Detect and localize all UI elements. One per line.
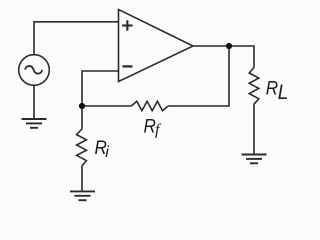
ground (RL) [242,155,267,164]
svg-text:R: R [266,76,278,98]
wire node A to Rf [82,105,131,107]
op-amp + input marker [122,20,133,30]
wire op-amp - input to node A [82,71,119,106]
svg-text:f: f [155,121,162,138]
ac source V1 [19,55,50,86]
op-amp - input marker [123,65,133,67]
svg-text:L: L [278,81,289,104]
wire op-amp output to RL branch [193,46,254,68]
resistor Ri [77,129,87,167]
op-amp U1 [119,10,194,82]
wire source top to op-amp + input [34,22,119,55]
node A: inverting input junction [79,103,85,109]
wire Ri to ground [81,167,83,191]
wire node A to Ri [81,106,83,129]
svg-text:i: i [105,144,109,161]
resistor RL [249,68,259,106]
resistor Rf [131,101,168,110]
label Rf [144,114,156,136]
ground (source) [22,119,47,128]
wire RL to ground [253,106,255,155]
ground (Ri) [70,191,95,200]
label RL [266,76,278,98]
wire source bottom to ground [33,85,35,119]
label Ri [95,136,107,158]
wire Rf to output node [168,46,229,106]
node: op-amp output junction [226,43,232,49]
